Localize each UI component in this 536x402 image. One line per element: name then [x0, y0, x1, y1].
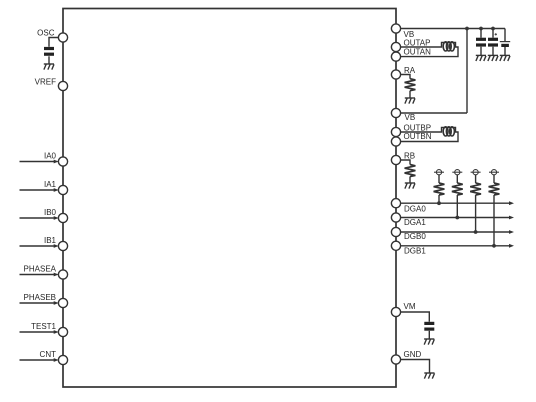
pin OSC	[58, 33, 67, 42]
svg-text:DGB1: DGB1	[404, 247, 426, 256]
ground	[500, 55, 510, 61]
capacitor C3	[500, 42, 510, 47]
ground	[476, 55, 486, 61]
svg-text:DGB0: DGB0	[404, 232, 426, 241]
pin VREF	[58, 81, 67, 90]
wire DGA1	[401, 217, 510, 219]
svg-text:TEST1: TEST1	[31, 322, 56, 331]
pin GND	[391, 355, 400, 364]
svg-text:RB: RB	[404, 152, 415, 161]
ground	[424, 373, 434, 379]
svg-text:OUTAP: OUTAP	[404, 39, 431, 48]
wire VB rail	[401, 28, 506, 30]
pull-up terminal R3	[471, 170, 481, 175]
wire R4 stub	[493, 175, 495, 183]
capacitor C_VM	[424, 322, 434, 331]
wire RA resistor to ground	[409, 91, 411, 98]
coil winding B	[443, 127, 454, 136]
wire IB1	[20, 245, 55, 247]
svg-text:IA0: IA0	[44, 152, 57, 161]
wire VB2	[401, 112, 468, 114]
arrow PHASEB	[54, 301, 59, 305]
junction R1-DGA0	[437, 201, 441, 205]
arrow TEST1	[54, 330, 59, 334]
resistor R2	[452, 183, 463, 195]
pin OUTBP	[391, 127, 400, 136]
pin DGA0	[391, 199, 400, 208]
wire DGB0	[401, 231, 510, 233]
pin OUTAN	[391, 52, 400, 61]
pin IA0	[58, 157, 67, 166]
arrow PHASEA	[54, 273, 59, 277]
resistor RA	[405, 79, 416, 91]
pull-up terminal R4	[489, 170, 499, 175]
wire RB	[401, 160, 411, 165]
wire R3 stub	[475, 175, 477, 183]
pin TEST1	[58, 327, 67, 336]
pin PHASEA	[58, 270, 67, 279]
svg-text:DGA0: DGA0	[404, 205, 426, 214]
wire C2 stub	[492, 29, 494, 38]
arrow IB0	[54, 216, 59, 220]
arrow IA1	[54, 188, 59, 192]
ground	[405, 98, 415, 104]
wire R3 to DGB0	[475, 195, 477, 232]
wire GND	[401, 360, 430, 373]
svg-text:RA: RA	[404, 66, 416, 75]
pin DGB1	[391, 241, 400, 250]
pin VM	[391, 307, 400, 316]
wire CNT	[20, 359, 55, 361]
wire R2 stub	[456, 175, 458, 183]
wire C2 to ground	[492, 47, 494, 56]
ground	[488, 55, 498, 61]
wire PHASEB	[20, 302, 55, 304]
pin VB top	[391, 24, 400, 33]
arrow DGA1	[509, 216, 514, 220]
wire RB resistor to ground	[409, 177, 411, 183]
pin IB0	[58, 213, 67, 222]
ground	[424, 339, 434, 345]
wire IB0	[20, 217, 55, 219]
wire TEST1	[20, 331, 55, 333]
junction R3-DGB0	[474, 230, 478, 234]
pin VB second	[391, 108, 400, 117]
pin PHASEB	[58, 298, 67, 307]
svg-text:OSC: OSC	[37, 29, 55, 38]
svg-text:GND: GND	[404, 350, 422, 359]
IC body	[63, 9, 396, 388]
svg-text:VM: VM	[404, 302, 416, 311]
wire PHASEA	[20, 274, 55, 276]
wire C_VM to ground	[428, 331, 430, 339]
pin IA1	[58, 185, 67, 194]
pin OUTBN	[391, 137, 400, 146]
wire DGA0	[401, 202, 510, 204]
wire OUTAP	[401, 43, 459, 57]
arrow DGB1	[509, 244, 514, 248]
capacitor C_OSC	[44, 47, 54, 56]
svg-text:IA1: IA1	[44, 180, 57, 189]
pin IB1	[58, 241, 67, 250]
pin OUTAP	[391, 42, 400, 51]
pull-up terminal R1	[434, 170, 444, 175]
ground	[405, 183, 415, 189]
polarity plus C2	[495, 33, 497, 35]
svg-text:PHASEB: PHASEB	[24, 293, 56, 302]
resistor R1	[434, 183, 445, 195]
arrow IA0	[54, 160, 59, 164]
wire R4 to DGB1	[493, 195, 495, 246]
junction VB-link	[465, 27, 469, 31]
svg-text:IB1: IB1	[44, 236, 57, 245]
resistor R3	[470, 183, 481, 195]
resistor R4	[489, 183, 500, 195]
arrow CNT	[54, 358, 59, 362]
svg-text:PHASEA: PHASEA	[24, 265, 57, 274]
capacitor C1	[476, 38, 486, 47]
svg-text:VB: VB	[405, 113, 416, 122]
junction C2	[491, 27, 495, 31]
wire R2 to DGA1	[456, 195, 458, 218]
svg-text:OUTAN: OUTAN	[404, 48, 432, 57]
wire OUTBP	[401, 128, 459, 142]
coil winding A	[443, 42, 454, 51]
arrow DGB0	[509, 230, 514, 234]
capacitor C2	[488, 38, 498, 47]
wire C_OSC to ground	[48, 56, 50, 64]
wire OSC stub	[49, 38, 59, 47]
pull-up terminal R2	[452, 170, 462, 175]
svg-text:VREF: VREF	[35, 78, 56, 87]
wire R1 to DGA0	[438, 195, 440, 203]
pin DGA1	[391, 213, 400, 222]
svg-text:CNT: CNT	[40, 350, 57, 359]
pin DGB0	[391, 227, 400, 236]
wire IA1	[20, 189, 55, 191]
wire VB link vertical	[466, 29, 468, 114]
pin RB	[391, 155, 400, 164]
wire VM	[401, 312, 430, 322]
wire DGB1	[401, 245, 510, 247]
pin CNT	[58, 355, 67, 364]
wire C3 stub	[504, 29, 506, 42]
junction R2-DGA1	[455, 216, 459, 220]
svg-text:IB0: IB0	[44, 208, 57, 217]
junction C1	[479, 27, 483, 31]
junction R4-DGB1	[492, 244, 496, 248]
wire R1 stub	[438, 175, 440, 183]
wire IA0	[20, 161, 55, 163]
wire RA	[401, 75, 411, 79]
wire C3 to ground	[504, 47, 506, 55]
svg-text:DGA1: DGA1	[404, 218, 426, 227]
svg-text:OUTBN: OUTBN	[404, 132, 432, 141]
resistor RB	[405, 165, 416, 177]
pin RA	[391, 70, 400, 79]
wire C1 stub	[480, 29, 482, 38]
arrow DGA0	[509, 201, 514, 205]
arrow IB1	[54, 244, 59, 248]
ground	[44, 64, 54, 70]
wire C1 to ground	[480, 47, 482, 56]
